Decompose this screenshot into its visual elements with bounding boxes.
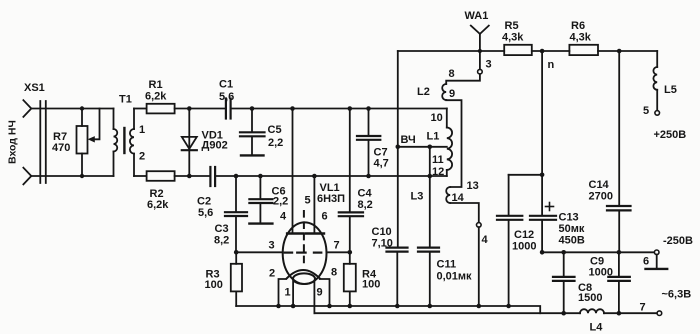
svg-text:5: 5 bbox=[643, 105, 649, 117]
svg-text:6: 6 bbox=[322, 211, 328, 223]
svg-text:4: 4 bbox=[482, 234, 489, 246]
svg-text:6Н3П: 6Н3П bbox=[317, 193, 345, 205]
svg-text:9: 9 bbox=[449, 88, 455, 100]
svg-text:C12: C12 bbox=[514, 229, 534, 241]
svg-text:13: 13 bbox=[467, 180, 479, 192]
svg-text:Д902: Д902 bbox=[202, 140, 228, 152]
svg-text:100: 100 bbox=[205, 279, 223, 291]
svg-text:1: 1 bbox=[139, 124, 145, 136]
svg-text:R6: R6 bbox=[571, 20, 585, 32]
svg-text:6,2k: 6,2k bbox=[145, 91, 167, 103]
svg-text:5,6: 5,6 bbox=[198, 207, 213, 219]
svg-text:WA1: WA1 bbox=[465, 10, 489, 22]
svg-text:9: 9 bbox=[317, 287, 323, 299]
svg-text:1000: 1000 bbox=[512, 241, 536, 253]
svg-text:L1: L1 bbox=[427, 131, 440, 143]
svg-text:0,01мк: 0,01мк bbox=[437, 271, 473, 283]
svg-text:Вход НЧ: Вход НЧ bbox=[7, 120, 19, 164]
svg-text:XS1: XS1 bbox=[24, 82, 45, 94]
svg-text:ВЧ: ВЧ bbox=[401, 134, 416, 146]
svg-text:4,3k: 4,3k bbox=[570, 32, 592, 44]
svg-text:11: 11 bbox=[432, 154, 444, 166]
svg-text:14: 14 bbox=[452, 192, 465, 204]
svg-text:R5: R5 bbox=[505, 20, 519, 32]
svg-text:L2: L2 bbox=[417, 86, 430, 98]
svg-text:1500: 1500 bbox=[578, 292, 602, 304]
svg-text:7: 7 bbox=[640, 302, 646, 314]
svg-text:5: 5 bbox=[305, 195, 311, 207]
svg-text:C2: C2 bbox=[197, 196, 211, 208]
svg-text:L3: L3 bbox=[411, 191, 424, 203]
svg-text:-250В: -250В bbox=[663, 235, 693, 247]
svg-text:8,2: 8,2 bbox=[358, 199, 373, 211]
svg-text:C10: C10 bbox=[372, 226, 392, 238]
svg-text:n: n bbox=[548, 59, 555, 71]
svg-text:1000: 1000 bbox=[589, 267, 613, 279]
svg-text:2700: 2700 bbox=[589, 191, 613, 203]
svg-text:50мк: 50мк bbox=[559, 223, 585, 235]
svg-text:4,3k: 4,3k bbox=[502, 32, 524, 44]
svg-text:7: 7 bbox=[334, 240, 340, 252]
svg-text:1: 1 bbox=[285, 287, 291, 299]
svg-text:4: 4 bbox=[280, 211, 287, 223]
svg-text:~6,3В: ~6,3В bbox=[662, 289, 692, 301]
svg-text:8,2: 8,2 bbox=[214, 235, 229, 247]
svg-text:L4: L4 bbox=[590, 322, 604, 334]
svg-text:8: 8 bbox=[331, 267, 337, 279]
svg-text:10: 10 bbox=[431, 112, 443, 124]
svg-text:C11: C11 bbox=[437, 259, 457, 271]
svg-text:6: 6 bbox=[643, 256, 649, 268]
svg-text:6,2k: 6,2k bbox=[147, 199, 169, 211]
svg-text:L5: L5 bbox=[664, 84, 677, 96]
svg-text:7,10: 7,10 bbox=[372, 238, 393, 250]
svg-text:C1: C1 bbox=[219, 79, 233, 91]
svg-text:2: 2 bbox=[269, 268, 275, 280]
svg-text:2,2: 2,2 bbox=[268, 137, 283, 149]
svg-text:470: 470 bbox=[52, 142, 70, 154]
svg-text:C3: C3 bbox=[215, 223, 229, 235]
svg-text:3: 3 bbox=[486, 59, 492, 71]
svg-text:4,7: 4,7 bbox=[374, 158, 389, 170]
svg-text:C4: C4 bbox=[358, 188, 373, 200]
svg-text:3: 3 bbox=[269, 240, 275, 252]
svg-text:8: 8 bbox=[449, 68, 455, 80]
svg-text:2: 2 bbox=[139, 151, 145, 163]
svg-text:C14: C14 bbox=[589, 179, 610, 191]
svg-text:C5: C5 bbox=[268, 124, 282, 136]
svg-text:C13: C13 bbox=[559, 212, 579, 224]
svg-text:T1: T1 bbox=[119, 94, 132, 106]
svg-text:450В: 450В bbox=[559, 235, 585, 247]
svg-text:+250В: +250В bbox=[654, 129, 687, 141]
svg-text:2,2: 2,2 bbox=[273, 196, 288, 208]
svg-text:R1: R1 bbox=[149, 79, 163, 91]
svg-text:5,6: 5,6 bbox=[219, 91, 234, 103]
svg-text:100: 100 bbox=[362, 279, 380, 291]
svg-text:12: 12 bbox=[432, 166, 444, 178]
